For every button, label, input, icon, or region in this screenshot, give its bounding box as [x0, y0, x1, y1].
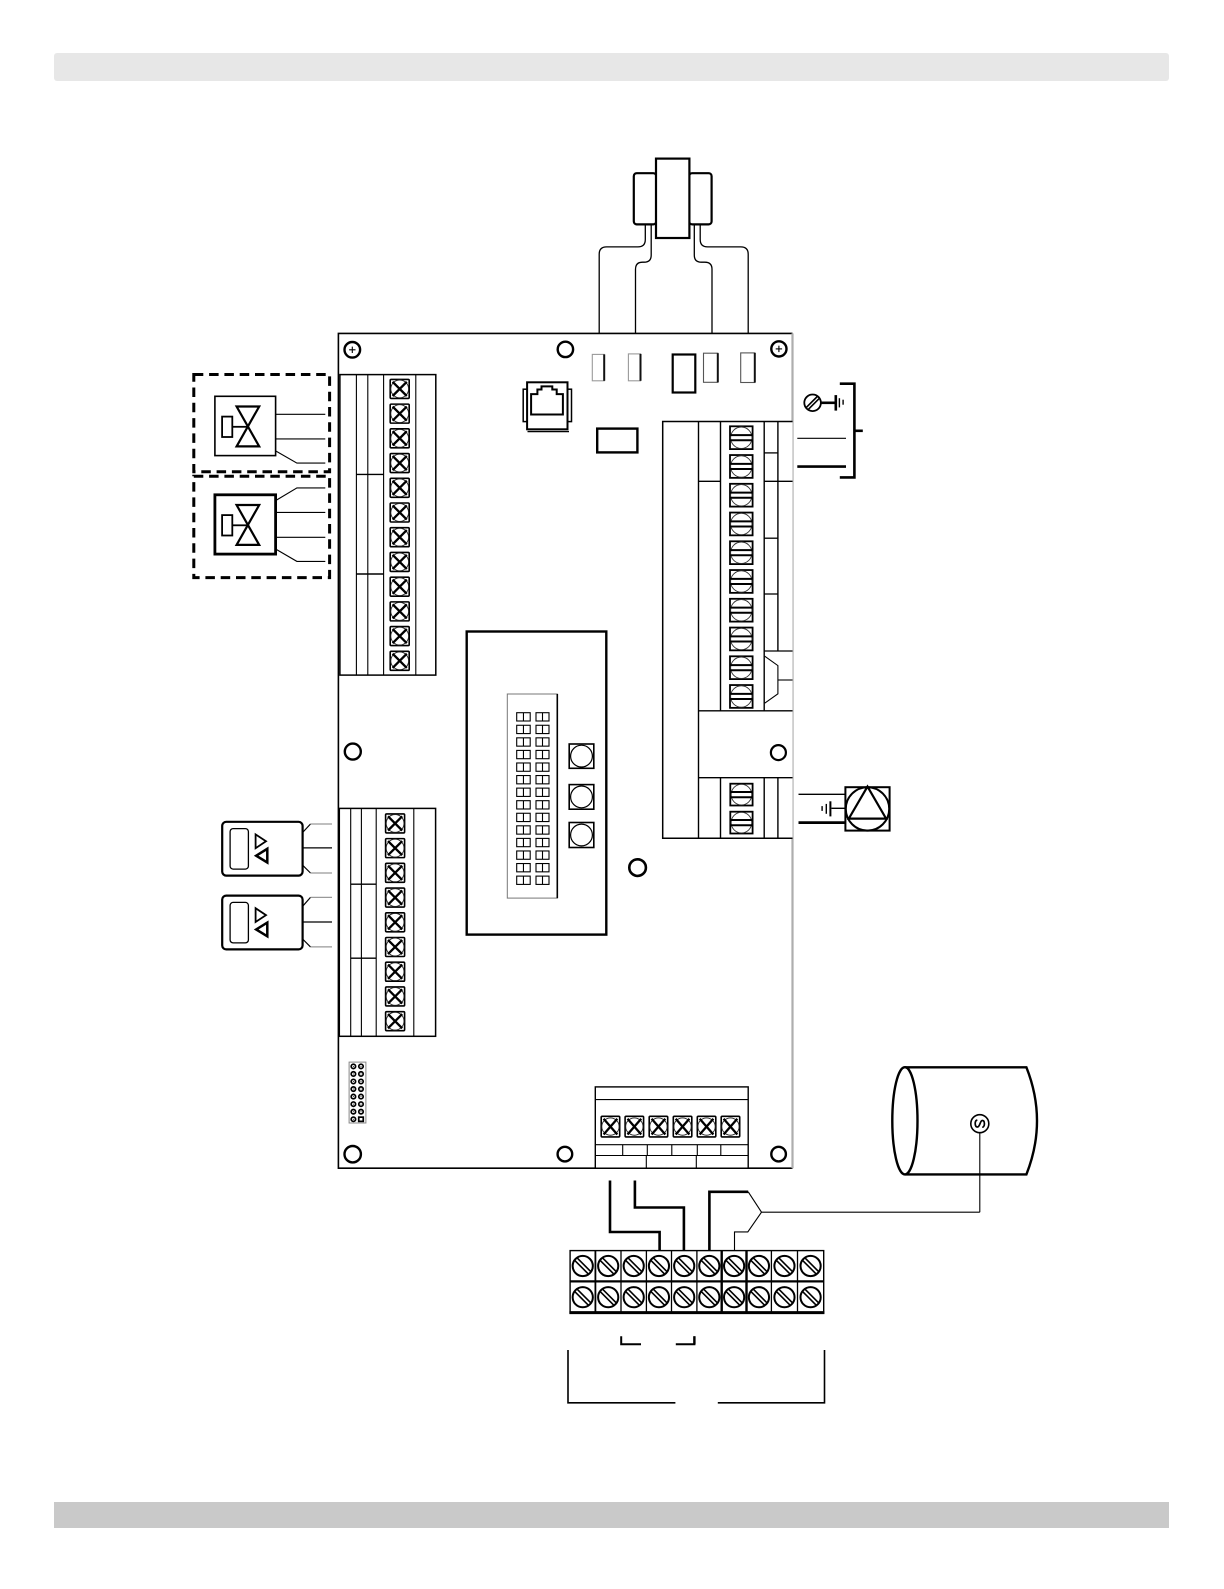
- strip row divider: [570, 1280, 824, 1282]
- TB2 screw terminal 3: [386, 863, 405, 882]
- zone valve 1 motor head: [215, 396, 276, 455]
- pin header J2 pin r3c1: [351, 1079, 355, 1083]
- wire transformer lead 3 (inner right) to board: [694, 224, 712, 333]
- terminal block TB1 body (zone valve terminals): [340, 375, 436, 675]
- RJ45 jack J1 body: [527, 382, 567, 429]
- strip screw row 1 pos 1: [573, 1256, 593, 1276]
- mounting hole bottom-center: [558, 1147, 573, 1162]
- terminal block TB3 body (line voltage terminals): [663, 422, 793, 839]
- TB1 screw terminal 5: [390, 478, 409, 497]
- terminal block TB4 body (sensor terminals): [595, 1087, 748, 1168]
- ground screw (earth lug): [804, 395, 821, 412]
- component U2 (small box): [597, 429, 637, 453]
- wire thermostat T2 terminal b: [303, 921, 332, 923]
- TB1 screw terminal 6: [390, 503, 409, 522]
- TB3 screw terminal 8: [730, 628, 753, 651]
- component F2 (small vertical part): [628, 354, 640, 381]
- display connector pin pair row 10: [517, 826, 531, 834]
- strip screw row 1 pos 5: [674, 1256, 694, 1276]
- pin header J2 pin r5c1: [351, 1094, 355, 1098]
- strip screw row 1 pos 10: [801, 1256, 821, 1276]
- pin header J2 pin r4c1: [351, 1087, 355, 1091]
- TB3 screw terminal 12 (pump L): [730, 812, 752, 834]
- wire TB4 to strip terminal 4: [610, 1181, 660, 1258]
- wire TB3 to pump (bottom, thick): [799, 821, 846, 824]
- TB1 screw terminal 12: [390, 651, 409, 670]
- TB1 group divider 1: [356, 473, 383, 475]
- TB4 screw terminal 6: [721, 1116, 740, 1137]
- TB3 divider c: [764, 537, 778, 539]
- page footer bar: [54, 1502, 1169, 1528]
- strip screw row 2 pos 3: [624, 1287, 644, 1307]
- wire thermostat T1 terminal c: [303, 865, 311, 873]
- circulator pump P1: [845, 787, 889, 830]
- TB1 screw terminal 8: [390, 552, 409, 571]
- TB3 screw terminal 6: [730, 570, 753, 593]
- wire zone valve 2 terminal c: [276, 536, 326, 538]
- strip screw row 2 pos 5: [674, 1287, 694, 1307]
- TB3 screw terminal 3: [730, 484, 753, 507]
- wire thermostat T1 terminal b: [303, 847, 332, 849]
- TB1 screw terminal 4: [390, 454, 409, 473]
- wire sensor to fork: [979, 1133, 981, 1213]
- jumper bracket left: [621, 1336, 641, 1344]
- pin header J2 pin r2c1: [351, 1072, 355, 1076]
- display connector pin pair row 6: [517, 776, 531, 784]
- display connector pin pair row 1: [517, 713, 531, 721]
- strip screw row 2 pos 9: [774, 1287, 794, 1307]
- display connector pin pair row 7: [517, 788, 531, 796]
- mounting hole bottom-right: [771, 1147, 786, 1162]
- strip screw row 1 pos 4: [649, 1256, 669, 1276]
- pin header J2 pin r8c1: [351, 1117, 355, 1121]
- TB1 screw terminal 3: [390, 429, 409, 448]
- display connector pin pair row 5: [517, 763, 531, 771]
- component F4 (small vertical part): [741, 353, 755, 383]
- tank sensor S: [971, 1115, 989, 1133]
- TB1 screw terminal 10: [390, 602, 409, 621]
- TB2 screw terminal 8: [386, 987, 405, 1006]
- TB4 screw terminal 2: [625, 1116, 644, 1137]
- indirect water heater tank body: [905, 1067, 1037, 1174]
- wire transformer lead 1 (outer left) to board: [599, 224, 645, 333]
- TB1 screw terminal 2: [390, 404, 409, 423]
- pin header J2 pin 16 (square pin 1 marker): [358, 1116, 364, 1122]
- TB2 screw terminal 1: [386, 814, 405, 833]
- pin header J2 pin r1c2: [359, 1064, 363, 1068]
- TB3 lower group top divider: [699, 777, 793, 779]
- wire zone valve 1 terminal b: [276, 438, 326, 440]
- TB3 connector wedge: [765, 656, 778, 703]
- TB2 group divider 2: [351, 957, 377, 959]
- strip screw row 2 pos 7: [724, 1287, 744, 1307]
- TB3 screw terminal 9: [730, 656, 753, 679]
- strip screw row 1 pos 3: [624, 1256, 644, 1276]
- display connector pin pair row 9: [517, 813, 531, 821]
- display connector pin pair row 3: [517, 738, 531, 746]
- pump chassis ground symbol: [829, 801, 831, 816]
- wire zone valve 1 terminal a: [276, 413, 326, 415]
- mounting hole top-center: [558, 342, 573, 357]
- pin header J2 pin r7c1: [351, 1110, 355, 1114]
- transformer TR1 core: [656, 159, 689, 238]
- board hole near display: [629, 859, 646, 876]
- component F3 (small vertical part): [704, 353, 718, 382]
- transformer TR1 secondary winding (right): [689, 173, 711, 224]
- display connector pin pair row 4: [517, 750, 531, 758]
- strip screw row 1 pos 8: [749, 1256, 769, 1276]
- thermostat T2 body: [222, 896, 302, 950]
- TB3 screw terminal 10: [730, 685, 753, 708]
- pin header J2 outline: [349, 1062, 366, 1123]
- push button S3: [569, 823, 594, 848]
- zone valve 2 dashed enclosure: [194, 476, 330, 577]
- wire thermostat T1 terminal a: [303, 824, 311, 833]
- field wiring group bracket: [568, 1350, 675, 1403]
- TB3 screw terminal 7: [730, 599, 753, 622]
- page header bar: [54, 53, 1169, 81]
- wire TB4 to strip terminal 5: [635, 1181, 684, 1258]
- wire zone valve 2 terminal a: [276, 488, 326, 501]
- component F1 (small vertical part): [592, 354, 604, 380]
- transformer TR1 primary winding (left): [634, 173, 656, 224]
- pin header J2 pin r3c2: [359, 1079, 363, 1083]
- strip screw row 2 pos 4: [649, 1287, 669, 1307]
- pin header J2 pin r6c2: [359, 1102, 363, 1106]
- sensor fork lower diagonal / wire to strip terminal 7: [735, 1212, 762, 1257]
- display connector header: [507, 694, 557, 898]
- mounting hole bottom-left: [345, 1146, 361, 1162]
- wire strip terminal 6 to sensor fork: [709, 1192, 748, 1257]
- pin header J2 pin r7c2: [359, 1110, 363, 1114]
- RJ45 jack J1 plug opening: [531, 386, 563, 414]
- terminal block TB2 body (thermostat terminals): [339, 808, 435, 1036]
- zone valve 1 dashed enclosure: [194, 375, 330, 472]
- tank left end ellipse: [892, 1067, 917, 1174]
- wire zone valve 2 terminal b: [276, 511, 326, 513]
- pin header J2 pin r1c1: [351, 1064, 355, 1068]
- strip screw row 1 pos 7: [724, 1256, 744, 1276]
- wire thermostat T2 terminal a: [303, 897, 311, 906]
- TB4 lower cell row: [595, 1144, 748, 1146]
- mounting hole middle-left: [345, 744, 361, 760]
- TB1 screw terminal 7: [390, 528, 409, 547]
- TB2 screw terminal 4: [386, 888, 405, 907]
- wire zone valve 2 terminal d: [276, 549, 326, 561]
- TB1 screw terminal 11: [390, 627, 409, 646]
- TB3 divider e: [764, 650, 792, 652]
- TB4 screw terminal 1: [601, 1116, 620, 1137]
- pin header J2 pin r4c2: [359, 1087, 363, 1091]
- TB3 screw terminal 5: [730, 541, 753, 564]
- push button S2: [569, 785, 594, 810]
- TB4 screw terminal 3: [649, 1116, 668, 1137]
- display connector pin pair row 14: [517, 876, 531, 884]
- wire transformer lead 2 (inner left) to board: [636, 224, 652, 333]
- display connector pin pair row 12: [517, 851, 531, 859]
- TB3 screw terminal 4: [730, 513, 753, 536]
- bracket 120V supply: [840, 384, 855, 478]
- wire fork to tank sensor: [762, 1211, 980, 1213]
- sensor fork upper diagonal: [748, 1192, 761, 1212]
- strip screw row 2 pos 2: [598, 1287, 618, 1307]
- TB2 screw terminal 2: [386, 839, 405, 858]
- strip screw row 1 pos 9: [774, 1256, 794, 1276]
- TB3 screw terminal 2: [730, 455, 753, 478]
- wire TB3 to pump (top): [799, 793, 846, 795]
- wire thermostat T2 terminal c: [303, 939, 311, 947]
- jumper bracket right: [676, 1336, 695, 1344]
- TB1 screw terminal 9: [390, 577, 409, 596]
- TB1 screw terminal 1: [390, 379, 409, 398]
- control board right edge (light): [791, 333, 793, 1168]
- pin header J2 pin r5c2: [359, 1094, 363, 1098]
- TB2 screw terminal 5: [386, 913, 405, 932]
- control board outline: [338, 333, 792, 1168]
- strip screw row 2 pos 8: [749, 1287, 769, 1307]
- strip screw row 2 pos 6: [699, 1287, 719, 1307]
- push button S1: [569, 744, 594, 768]
- TB4 screw terminal 5: [697, 1116, 716, 1137]
- TB2 screw terminal 6: [386, 938, 405, 957]
- pin header J2 pin r2c2: [359, 1072, 363, 1076]
- strip bottom edge: [569, 1311, 824, 1314]
- TB3 group divider bottom: [699, 710, 793, 712]
- TB2 group divider 1: [351, 883, 377, 885]
- strip screw row 2 pos 10: [801, 1287, 821, 1307]
- TB2 screw terminal 7: [386, 962, 405, 981]
- strip screw row 2 pos 1: [573, 1287, 593, 1307]
- wire transformer lead 4 (outer right) to board: [700, 224, 748, 333]
- wire zone valve 1 terminal c: [276, 451, 326, 463]
- TB2 screw terminal 9: [386, 1012, 405, 1031]
- component K1 (relay outline): [673, 355, 696, 393]
- TB3 divider d: [764, 593, 778, 595]
- wire TB3 to bracket (neutral, thin): [797, 437, 846, 439]
- mounting screw top-left: [345, 342, 361, 358]
- TB3 screw terminal 1: [730, 426, 753, 449]
- wire TB3 to bracket (line, thick): [797, 465, 846, 468]
- zone valve 2 motor head: [215, 495, 276, 554]
- strip screw row 1 pos 6: [699, 1256, 719, 1276]
- RJ45 jack J1 side tab left: [523, 389, 527, 421]
- display connector pin pair row 2: [517, 725, 531, 733]
- TB4 screw terminal 4: [673, 1116, 692, 1137]
- TB3 divider b: [699, 480, 721, 482]
- mounting hole middle-right: [771, 745, 786, 760]
- TB1 group divider 2: [356, 573, 383, 575]
- display connector pin pair row 11: [517, 838, 531, 846]
- display connector pin pair row 13: [517, 864, 531, 872]
- wire ground screw to chassis ground: [821, 401, 835, 404]
- display module U1 outline: [467, 632, 607, 935]
- TB3 divider a: [764, 452, 778, 454]
- field wiring terminal strip (2 x 10): [570, 1251, 824, 1313]
- pump ground stub: [832, 807, 846, 809]
- display connector pin pair row 8: [517, 801, 531, 809]
- RJ45 jack J1 side tab right: [568, 389, 572, 421]
- TB3 screw terminal 11 (pump N): [730, 784, 752, 806]
- strip screw row 1 pos 2: [598, 1256, 618, 1276]
- pin header J2 pin r6c1: [351, 1102, 355, 1106]
- chassis ground symbol: [834, 395, 837, 411]
- thermostat T1 body: [222, 822, 302, 876]
- mounting screw top-right: [771, 341, 786, 356]
